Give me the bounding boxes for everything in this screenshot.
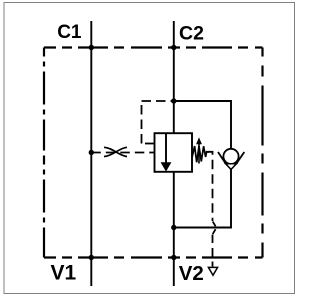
junction dot C2 top <box>171 45 176 50</box>
drain arrow (open) <box>208 267 217 275</box>
svg-text:C2: C2 <box>179 23 204 45</box>
wire check valve bottom return <box>174 169 231 228</box>
junction dot check return <box>171 225 176 230</box>
drain line jump over wire <box>213 222 216 227</box>
pilot line from C1 through orifice <box>91 152 154 154</box>
svg-text:C1: C1 <box>57 22 82 43</box>
junction dot orifice branch <box>89 150 94 155</box>
svg-text:V1: V1 <box>51 262 77 285</box>
drain line from spring to V2 <box>206 152 213 221</box>
check valve CV1 <box>223 149 238 164</box>
svg-text:V2: V2 <box>179 262 204 285</box>
junction dot V2 bottom <box>171 255 176 260</box>
valve body U1 (counterbalance element) <box>155 133 193 172</box>
flow arrow inside valve <box>165 133 167 163</box>
valve envelope border top <box>44 46 263 48</box>
wire C1-V1 line <box>90 21 92 286</box>
wire C2-V2 line <box>173 21 175 286</box>
spring adjustment arrow <box>198 144 200 164</box>
junction dot V1 bottom <box>89 255 94 260</box>
junction dot pilot branch <box>171 98 176 103</box>
drain line lower part <box>212 235 214 267</box>
spring <box>192 146 209 162</box>
valve envelope border right <box>261 48 263 258</box>
valve envelope border bottom <box>44 256 263 258</box>
junction dot C1 top <box>89 45 94 50</box>
wire to check valve top <box>174 101 231 149</box>
valve envelope border left <box>43 48 45 258</box>
orifice (restrictor) <box>104 147 127 156</box>
pilot line from C2 junction to valve <box>142 100 174 102</box>
